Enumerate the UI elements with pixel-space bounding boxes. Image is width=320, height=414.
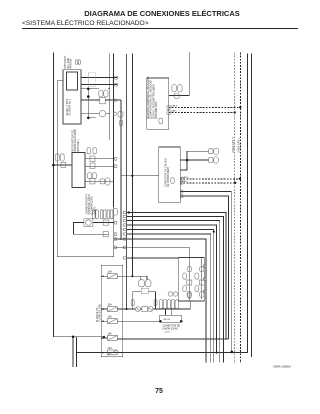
svg-text:PARADA: PARADA	[70, 58, 73, 68]
svg-text:10A: 10A	[108, 304, 113, 307]
svg-text:75: 75	[155, 388, 163, 395]
svg-text:10A: 10A	[108, 333, 113, 336]
svg-text:UNION (CAN): UNION (CAN)	[163, 328, 178, 331]
svg-text:(TACOMETRO): (TACOMETRO)	[155, 101, 158, 119]
svg-text:DE DATOS (M22): DE DATOS (M22)	[167, 167, 170, 187]
svg-text:FUSIBLES (J/B): FUSIBLES (J/B)	[99, 304, 102, 322]
svg-text:CAN L: CAN L	[182, 180, 189, 183]
svg-text:SENSOR No.1: SENSOR No.1	[69, 98, 72, 115]
svg-text:CAN L: CAN L	[171, 109, 178, 112]
svg-text:10A: 10A	[108, 316, 113, 319]
svg-text:10A: 10A	[108, 347, 113, 350]
svg-text:CAN H: CAN H	[171, 104, 178, 107]
svg-text:<SISTEMA ELÉCTRICO RELACIONADO: <SISTEMA ELÉCTRICO RELACIONADO>	[22, 18, 149, 27]
svg-text:DIAGRAMA DE CONEXIONES ELÉCTRI: DIAGRAMA DE CONEXIONES ELÉCTRICAS	[84, 9, 240, 18]
svg-text:CAN H: CAN H	[182, 176, 189, 179]
svg-text:(NATURAL): (NATURAL)	[77, 139, 80, 152]
svg-text:(M101): (M101)	[93, 206, 96, 214]
svg-text:10A: 10A	[108, 271, 113, 274]
svg-text:GW0A-1090GA: GW0A-1090GA	[273, 365, 291, 369]
svg-text:LINEA CAN H: LINEA CAN H	[232, 137, 235, 153]
svg-text:UNION: UNION	[163, 319, 170, 321]
svg-text:LINEA CAN L: LINEA CAN L	[237, 137, 240, 153]
svg-text:J-101: J-101	[165, 331, 171, 333]
